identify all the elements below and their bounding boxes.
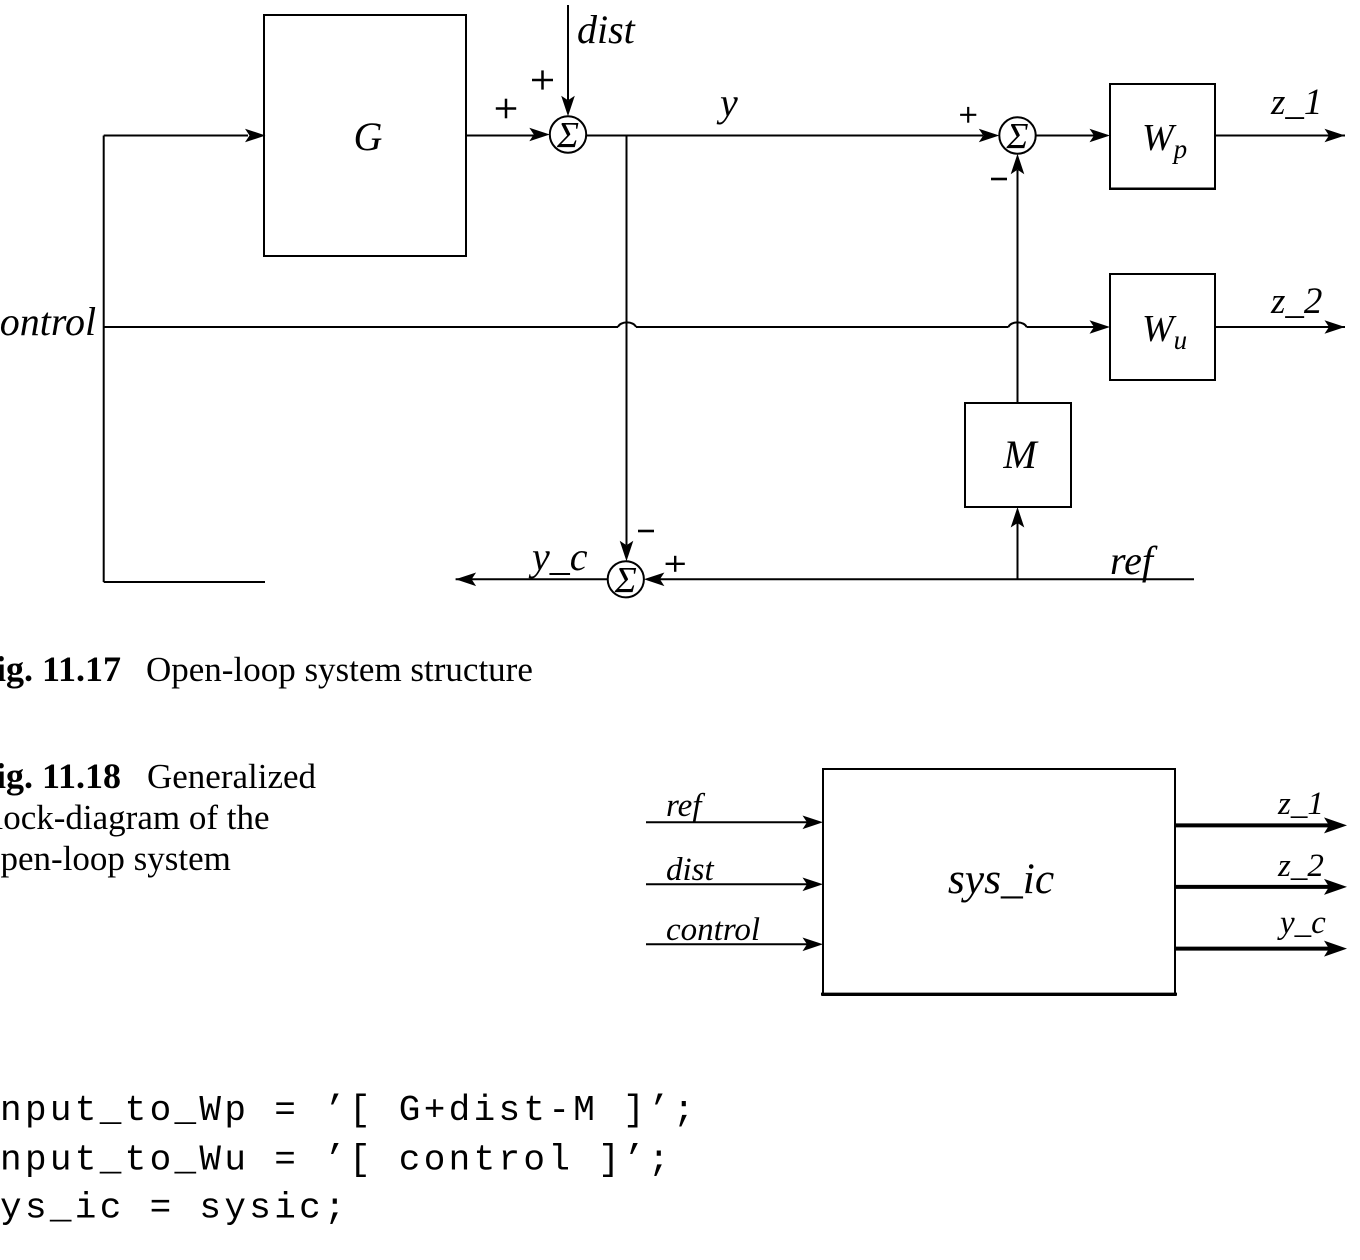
svg-text:z_1: z_1	[1277, 786, 1324, 822]
svg-text:Σ: Σ	[1006, 117, 1029, 158]
svg-text:Fig. 11.18: Fig. 11.18	[0, 756, 121, 796]
svg-text:y_c: y_c	[1277, 905, 1326, 941]
svg-text:input_to_Wp = ’[ G+dist-M ]’;: input_to_Wp = ’[ G+dist-M ]’;	[0, 1090, 698, 1131]
svg-text:z_1: z_1	[1270, 82, 1322, 123]
svg-text:control: control	[666, 912, 760, 948]
svg-text:open-loop system: open-loop system	[0, 839, 231, 878]
svg-text:Σ: Σ	[614, 560, 637, 601]
svg-text:Generalized: Generalized	[147, 757, 317, 796]
svg-text:G: G	[354, 114, 383, 159]
svg-text:block-diagram of the: block-diagram of the	[0, 798, 270, 837]
svg-text:z_2: z_2	[1270, 281, 1322, 322]
svg-text:ref: ref	[1110, 538, 1158, 583]
svg-text:M: M	[1002, 432, 1039, 477]
svg-text:y_c: y_c	[528, 534, 588, 579]
svg-text:Σ: Σ	[556, 116, 579, 157]
svg-text:input_to_Wu = ’[ control ]’;: input_to_Wu = ’[ control ]’;	[0, 1140, 673, 1181]
svg-text:ref: ref	[666, 788, 705, 824]
svg-text:control: control	[0, 299, 96, 344]
svg-text:Fig. 11.17: Fig. 11.17	[0, 649, 121, 689]
svg-text:dist: dist	[577, 7, 636, 52]
svg-text:z_2: z_2	[1277, 848, 1324, 884]
svg-text:y: y	[716, 80, 738, 125]
svg-text:sys_ic: sys_ic	[948, 855, 1054, 903]
svg-text:dist: dist	[666, 852, 715, 888]
svg-text:Open-loop system structure: Open-loop system structure	[146, 650, 533, 689]
svg-text:sys_ic = sysic;: sys_ic = sysic;	[0, 1188, 349, 1229]
